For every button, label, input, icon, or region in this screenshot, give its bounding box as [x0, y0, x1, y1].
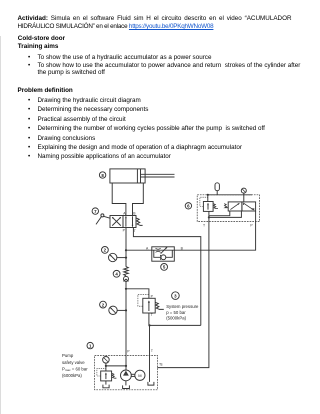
relief valve V6a pilot	[200, 197, 208, 206]
svg-text:safety valve: safety valve	[62, 360, 85, 365]
gauge G1	[109, 253, 117, 261]
wire: V6 internal staircase lower	[209, 211, 242, 217]
svg-text:Ts: Ts	[159, 363, 163, 367]
svg-text:P: P	[123, 228, 126, 232]
svg-text:T: T	[203, 224, 205, 228]
relief valve V6a spring	[213, 204, 218, 209]
wire: cylinder left port down	[112, 183, 126, 216]
svg-text:2: 2	[102, 302, 105, 307]
wire: cylinder right port down	[133, 183, 144, 216]
wire: pump suction	[125, 381, 127, 386]
wire: V7 T to tank riser	[133, 228, 200, 326]
valve V7 port labels	[123, 212, 137, 233]
wire: V6 internal staircase upper	[209, 211, 230, 216]
pump unit caption	[62, 353, 88, 378]
node: relief branch	[125, 288, 127, 290]
bullet: pd 5	[38, 136, 96, 142]
paragraph: Actividad line 1	[18, 16, 292, 22]
bullet: aim 1	[38, 55, 212, 61]
wire: T return inside	[149, 355, 151, 382]
svg-text:System pressure: System pressure	[166, 304, 199, 309]
valve V6b body 4/2	[228, 202, 255, 211]
gauge G2	[109, 306, 117, 314]
check valve V4 spring	[124, 267, 129, 276]
svg-text:B: B	[181, 246, 184, 250]
flow control V5 port labels	[146, 246, 184, 250]
tank T3	[148, 382, 154, 385]
node: A branch	[125, 249, 127, 251]
motor shaft	[131, 374, 134, 376]
flow control V5 bypass check	[154, 250, 173, 260]
node: gauge G2 tap	[125, 309, 127, 311]
bullet: aim 2 line 1	[38, 63, 301, 69]
wire: tank collector	[150, 325, 201, 355]
valve assembly 6 dashed enclosure	[197, 195, 259, 222]
svg-text:Pump: Pump	[62, 353, 74, 358]
wire: valve 6 T to tank	[157, 222, 209, 368]
svg-text:P: P	[250, 224, 253, 228]
balloon 2 upper	[102, 247, 109, 254]
wire: pilot tap to P	[106, 365, 126, 367]
paragraph: Actividad line 2	[18, 24, 214, 30]
bullet: pd 3	[38, 117, 126, 123]
node: tank junction	[148, 324, 150, 326]
cylinder C8 body	[110, 169, 145, 183]
safety relief V1 pilot	[97, 368, 106, 376]
wire: V6b top port	[243, 195, 245, 202]
relief valve V3 caption	[166, 304, 199, 320]
svg-text:A: A	[146, 246, 149, 250]
valve V6b right arrows	[244, 203, 254, 210]
pump port labels	[127, 349, 153, 353]
flow control V5 box	[152, 247, 175, 261]
relief valve V3 spring	[155, 302, 164, 309]
safety relief V1 spring	[112, 373, 117, 378]
valve V7 spring	[136, 218, 143, 225]
heading: Problem definition	[18, 88, 73, 94]
svg-text:T: T	[151, 313, 153, 317]
balloon 3	[172, 292, 180, 300]
balloon 1	[87, 342, 93, 348]
svg-text:p = 50 bar: p = 50 bar	[166, 310, 186, 315]
valve V6b left arrows	[230, 203, 239, 209]
valve 6 port labels	[203, 224, 253, 228]
valve V7 lever	[96, 214, 110, 225]
accumulator Z6	[215, 183, 219, 195]
svg-text:T: T	[134, 229, 136, 233]
svg-text:M: M	[138, 373, 141, 378]
relief valve V3	[143, 298, 155, 313]
wire: A line to flow control	[126, 249, 152, 251]
node: P tap	[125, 365, 127, 367]
wire: branch to relief V3	[126, 289, 149, 299]
relief valve V3 port labels	[151, 295, 154, 317]
node: rail left	[207, 194, 209, 196]
balloon 6	[185, 203, 191, 209]
wire: relief V6a to T exit	[208, 211, 210, 221]
pump P1	[121, 370, 132, 381]
bullet: pd 1	[38, 98, 141, 104]
flow control V5 throttle	[152, 247, 175, 254]
svg-text:Pmax = 60 bar: Pmax = 60 bar	[62, 366, 88, 372]
wire: main pressure line P	[125, 228, 127, 267]
heading: Cold-store door	[18, 36, 65, 42]
check valve V4 ball	[124, 276, 129, 281]
balloon 5	[161, 264, 168, 271]
heading: Training aims	[18, 44, 59, 50]
gauge G3	[241, 188, 246, 195]
valve V7 parallel arrows	[125, 216, 133, 226]
bullet: pd 4	[38, 126, 265, 132]
bullet: pd 7	[38, 154, 171, 160]
svg-text:1: 1	[89, 343, 92, 348]
valve V7 crossed arrows	[112, 217, 121, 225]
svg-text:5: 5	[163, 265, 166, 270]
svg-text:4: 4	[115, 272, 118, 277]
wire: gauge G4 stem	[105, 363, 107, 371]
wire: B line to valve 6 P	[174, 222, 255, 251]
svg-text:2: 2	[104, 248, 107, 253]
svg-text:8: 8	[101, 173, 104, 178]
bullet: pd 6	[38, 145, 242, 151]
svg-text:(5000kPa): (5000kPa)	[166, 315, 186, 320]
wire: relief V3 to tank	[148, 313, 150, 325]
valve V6b left spring	[224, 204, 228, 208]
safety relief valve V1	[101, 371, 112, 381]
bullet: pd 2	[38, 107, 149, 113]
valve V7 body 4/2	[110, 216, 136, 228]
wire: gauge G1 link	[117, 257, 126, 259]
wire: gauge G2 link	[117, 309, 126, 311]
balloon 8	[99, 172, 105, 178]
svg-text:(6000kPa): (6000kPa)	[62, 373, 82, 378]
cylinder C8 piston rod	[141, 174, 175, 177]
tank T2	[123, 385, 130, 388]
svg-text:3: 3	[174, 294, 177, 299]
node: gauge G1 tap	[125, 257, 127, 259]
balloon 2 lower	[100, 301, 107, 308]
relief valve V6a	[203, 195, 213, 212]
svg-text:P: P	[127, 349, 130, 353]
pump unit 1 dashed enclosure	[95, 355, 158, 389]
balloon 7	[92, 208, 98, 214]
motor M1	[135, 370, 145, 380]
svg-text:7: 7	[94, 209, 97, 214]
wire: relief V1 to tank	[105, 381, 107, 385]
bullet: aim 2 line 2	[38, 70, 105, 76]
wire: main line lower	[125, 282, 127, 370]
node: V6 T junction	[208, 216, 210, 218]
wire: accumulator rail	[208, 194, 252, 196]
svg-text:T: T	[151, 349, 153, 353]
wire: V6 P exit	[255, 211, 257, 222]
gauge G4	[103, 357, 110, 364]
svg-text:6: 6	[187, 204, 190, 209]
page left edge shadow	[0, 36, 2, 414]
balloon 4	[113, 270, 120, 277]
tank T1	[103, 385, 109, 388]
relief valve V3 pilot	[138, 294, 149, 306]
